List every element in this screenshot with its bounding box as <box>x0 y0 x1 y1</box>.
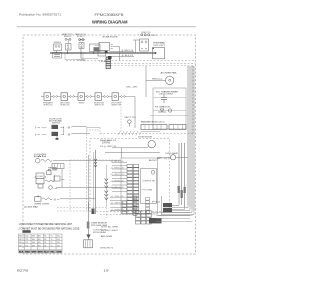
svg-text:BL: BL <box>44 242 46 244</box>
svg-text:NOTE: ALL WIRE: NOTE: ALL WIRE <box>101 225 119 228</box>
svg-text:MAGNETRON 120 C: MAGNETRON 120 C <box>141 121 166 124</box>
svg-text:-||- GRY-18: -||- GRY-18 <box>111 203 124 205</box>
svg-text:FUSE: FUSE <box>48 170 59 172</box>
motor glyph <box>49 186 53 190</box>
svg-text:YL: YL <box>51 239 53 241</box>
terminal block lower box <box>53 53 62 59</box>
svg-text:INTERLOCK: INTERLOCK <box>44 105 54 107</box>
svg-text:YL: YL <box>51 236 53 238</box>
board input wires <box>112 163 127 192</box>
pin ticks box D <box>111 44 113 46</box>
svg-text:5995579171: 5995579171 <box>100 247 114 249</box>
svg-text:-||- WHT 16: -||- WHT 16 <box>121 50 134 52</box>
svg-text:BRN: BRN <box>38 251 43 253</box>
control board <box>121 158 158 214</box>
terminal strip <box>106 58 111 69</box>
wire y148.5 <box>112 147 148 149</box>
cooling fan wire <box>53 159 121 161</box>
svg-text:-||- WHT-18: -||- WHT-18 <box>111 174 124 176</box>
upper section bottom dashed <box>66 60 196 62</box>
blower fan motor <box>166 76 174 84</box>
cavity hatch row <box>119 131 142 135</box>
svg-text:Publication No. 5995579171: Publication No. 5995579171 <box>19 13 61 17</box>
svg-text:-||- RED-18: -||- RED-18 <box>111 168 124 170</box>
wire drop A <box>67 50 69 53</box>
HV diode <box>160 109 164 112</box>
wire x107.5 <box>105 165 107 207</box>
svg-text:TCO: TCO <box>151 35 158 37</box>
cooling fan motor <box>35 158 40 163</box>
lower motor box <box>35 197 42 201</box>
board right-bottom pin column <box>146 198 150 214</box>
lower motor winding <box>42 198 52 200</box>
svg-text:BL: BL <box>44 239 46 241</box>
svg-text:FPMC3085KFB: FPMC3085KFB <box>95 13 124 17</box>
fan wire <box>146 79 166 81</box>
svg-text:CONTROL BD: CONTROL BD <box>142 181 156 183</box>
svg-text:LATCH: LATCH <box>79 39 85 42</box>
left dashed vertical x86.5 <box>86 128 88 212</box>
lower enclosure dashed box B <box>90 139 170 212</box>
microwave enclosure right dashed <box>192 66 194 134</box>
connector pair 3 <box>87 96 89 98</box>
svg-text:1 DISCONNECT POWER BEFORE SER: 1 DISCONNECT POWER BEFORE SERVICING UNIT… <box>19 223 73 226</box>
interlock switch 4 <box>95 93 102 101</box>
svg-text:-||- BLU-18: -||- BLU-18 <box>111 187 124 189</box>
wire down to magnetron <box>134 97 136 129</box>
legend chip <box>22 230 30 233</box>
svg-text:CONV: CONV <box>37 176 44 178</box>
microwave enclosure bottom dashed <box>100 133 193 135</box>
interlock switch 5 <box>112 93 119 101</box>
control box D <box>99 43 110 51</box>
wire bundle vertical 2 <box>95 150 97 214</box>
thermal cutout symbol 1 <box>65 38 67 40</box>
thermal cutout symbol 2 <box>79 39 81 41</box>
dashed drop x121 <box>120 101 122 131</box>
microwave top dashed lines <box>111 62 196 64</box>
svg-text:)-o +o-: )-o +o- <box>35 127 47 129</box>
terminal block box <box>54 44 62 51</box>
interlock switch 2 <box>61 93 68 101</box>
interlock switch 1 <box>44 93 51 101</box>
dark connector bar 1 <box>163 203 172 207</box>
board bottom connector stack 2 <box>122 201 127 214</box>
small box mid <box>54 176 60 181</box>
dashed enclosure C lines <box>70 159 120 161</box>
lower motor wire <box>60 198 96 200</box>
svg-text:BLK: BLK <box>19 251 24 253</box>
svg-text:-RED- -WHT-: -RED- -WHT- <box>126 86 138 88</box>
connector matrix <box>136 211 152 225</box>
convection element box 2 <box>36 178 44 184</box>
wire vertical x119.5 <box>119 47 121 62</box>
wire y187 <box>56 187 121 189</box>
interlock lead wire <box>41 96 44 98</box>
header rule <box>17 26 196 28</box>
svg-text:GRN: GRN <box>57 251 62 253</box>
HV circle symbol <box>168 109 171 112</box>
oven sensor body <box>84 240 93 248</box>
magnetron body <box>141 125 167 130</box>
svg-text:RED: RED <box>25 251 30 253</box>
svg-text:BRN-(C)-: BRN-(C)- <box>152 79 163 81</box>
table dark bottom row <box>19 251 62 253</box>
wire row labels <box>111 161 124 211</box>
svg-text:P7 CONN: P7 CONN <box>142 189 153 191</box>
wire bundle right <box>179 66 194 211</box>
HV wire row1 <box>153 96 186 98</box>
svg-text:SWITCH: SWITCH <box>95 105 105 107</box>
board inner box <box>141 169 157 204</box>
board bottom connector stack <box>133 196 137 215</box>
svg-text:2 CABINET MUST BE GROUNDED PE: 2 CABINET MUST BE GROUNDED PER NATIONAL … <box>19 227 81 230</box>
inner box circle <box>151 171 155 175</box>
wire bundle vertical 1b <box>93 152 95 211</box>
svg-text:YL: YL <box>51 242 53 244</box>
wire vertical x146 <box>145 66 147 97</box>
svg-text:-||- YEL-18: -||- YEL-18 <box>111 196 124 198</box>
svg-text:-||- BLK-18: -||- BLK-18 <box>111 161 124 163</box>
svg-text:SWITCH: SWITCH <box>52 123 61 125</box>
HV wire row2 <box>153 110 186 112</box>
svg-text:-||- BRN-18: -||- BRN-18 <box>111 180 124 182</box>
bus junction dots <box>67 52 69 54</box>
main bus wire <box>50 52 156 54</box>
svg-text:EOC: EOC <box>149 160 158 162</box>
svg-text:WHT: WHT <box>32 251 38 253</box>
wire y152 <box>105 151 160 153</box>
svg-text:-||-: -||- <box>66 127 73 129</box>
relay box C <box>90 44 101 52</box>
svg-text:OVEN LIGHT: OVEN LIGHT <box>34 204 50 206</box>
lock row wires right <box>72 126 87 128</box>
box F <box>140 39 149 51</box>
connector pair 1 <box>53 96 55 98</box>
svg-text:P2 CONN: P2 CONN <box>78 60 86 62</box>
winding right <box>45 180 55 182</box>
wire x161.5 <box>161 196 163 216</box>
lock bracket vertical <box>63 127 65 135</box>
dark fill block in matrix <box>149 218 162 223</box>
svg-text:150 C: 150 C <box>64 36 73 38</box>
dark connector bar 2 <box>163 208 172 212</box>
board pin columns <box>127 165 139 214</box>
wire drop C <box>93 52 95 54</box>
svg-text:-||-: -||- <box>66 134 73 136</box>
interlock switch 3 <box>78 93 85 101</box>
matrix wires right <box>152 212 190 214</box>
wire y215.5 <box>158 215 190 217</box>
svg-text:YEL: YEL <box>50 251 55 253</box>
svg-text:FAN: FAN <box>34 155 47 158</box>
HV divider <box>150 115 188 117</box>
junction blob <box>105 51 108 54</box>
connector pair 4 <box>104 96 106 98</box>
svg-text:BLU: BLU <box>44 251 49 253</box>
bundle bends into connectors <box>172 203 179 206</box>
svg-text:2450 MHZ: 2450 MHZ <box>159 94 174 96</box>
svg-text:-o-: -o- <box>61 179 66 181</box>
small box below <box>38 184 43 188</box>
convection element box <box>36 173 44 178</box>
switch box A <box>66 44 72 51</box>
svg-text:CAVITY TCO: CAVITY TCO <box>124 116 136 119</box>
dashed line y214.5 <box>100 214 135 216</box>
connector pair 2 <box>70 96 72 98</box>
microwave bottom-left jog <box>87 127 101 129</box>
svg-text:SWITCH: SWITCH <box>112 105 122 107</box>
svg-text:H.V. CAPACITOR: H.V. CAPACITOR <box>155 106 170 109</box>
wire into F <box>133 39 140 41</box>
svg-text:-||- BLK 16: -||- BLK 16 <box>121 55 134 57</box>
wire vertical x62 <box>61 169 63 188</box>
bundle wire labels <box>178 186 180 193</box>
oven thermostat circles <box>141 34 143 36</box>
svg-text:BR -o)-(: BR -o)-( <box>157 158 169 160</box>
wire y51.7 <box>110 51 135 53</box>
vert x121.5 <box>121 148 123 158</box>
svg-text:-||- ORN-18: -||- ORN-18 <box>111 209 124 211</box>
wire up <box>54 175 56 181</box>
svg-text:-BLOWER FAN-: -BLOWER FAN- <box>160 71 177 74</box>
fuse box <box>47 171 51 175</box>
oven lamp circle <box>170 155 175 160</box>
svg-text:"SW1": "SW1" <box>78 103 85 105</box>
svg-text:NOISE FILTER: NOISE FILTER <box>103 37 119 39</box>
svg-text:BL: BL <box>44 245 46 247</box>
svg-text:OVEN LAMP: OVEN LAMP <box>165 152 179 155</box>
HV capacitor symbol <box>161 97 167 99</box>
svg-text:WIRING DIAGRAM: WIRING DIAGRAM <box>92 19 128 24</box>
wire drop B <box>80 49 82 59</box>
svg-text:AWG 16 MIN: AWG 16 MIN <box>101 235 112 238</box>
box G <box>153 48 165 59</box>
svg-text:(2) 40W MAX: (2) 40W MAX <box>24 205 39 208</box>
svg-text:DOOR MOTOR: DOOR MOTOR <box>138 137 152 139</box>
door motor circle <box>148 141 155 148</box>
control box E <box>98 51 106 56</box>
switch assembly outline <box>65 53 83 60</box>
lock stub <box>56 136 58 139</box>
table dark bottom row fill <box>19 250 63 253</box>
svg-text:120 C: 120 C <box>77 36 86 38</box>
dashed line y211 <box>57 210 92 212</box>
lock row 2 box <box>52 132 59 136</box>
HV inner box <box>153 88 186 129</box>
wire right of D <box>113 46 120 48</box>
outer cabinet dashed border <box>23 35 196 254</box>
svg-text:INTERLOCK: INTERLOCK <box>61 105 71 107</box>
svg-text:)-o +o-: )-o +o- <box>35 134 47 136</box>
cooling fan winding <box>41 159 52 161</box>
wire color table <box>19 234 63 253</box>
svg-text:19: 19 <box>104 269 109 273</box>
magnetron body right part <box>169 125 186 130</box>
svg-text:YL: YL <box>51 245 53 247</box>
svg-text:P1 -||- BLK-16: P1 -||- BLK-16 <box>100 140 117 142</box>
wire bundle vertical 1 <box>88 155 90 211</box>
svg-text:(UPPER): (UPPER) <box>102 142 110 144</box>
svg-text:TB-A: TB-A <box>99 60 106 63</box>
junction blob <box>92 209 95 215</box>
dashed vert x106.5 <box>106 208 108 219</box>
connector pair 5 <box>121 96 123 98</box>
svg-text:CUT-OUT: CUT-OUT <box>153 45 166 47</box>
chevrons on bundle <box>94 159 97 167</box>
lock row 1 box <box>52 125 59 129</box>
oven sensor riser <box>88 202 90 235</box>
switch box B <box>79 43 84 49</box>
thermal cutout MW <box>128 120 132 124</box>
table text rows <box>19 236 60 248</box>
wire box A up <box>67 40 69 44</box>
stack wires <box>110 197 133 211</box>
wire y56.5 <box>106 56 135 58</box>
lamp wires <box>158 156 171 158</box>
svg-text:IS 105C 600V: IS 105C 600V <box>101 230 119 232</box>
P3 connector box <box>52 164 64 169</box>
wire y58.3 <box>81 57 98 59</box>
svg-text:8278: 8278 <box>17 269 29 273</box>
svg-text:BL: BL <box>44 236 46 238</box>
